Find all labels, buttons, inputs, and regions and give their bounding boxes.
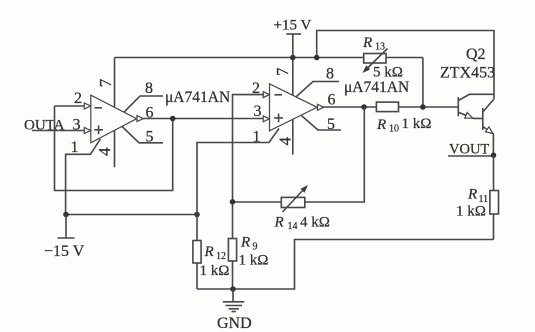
wire U1 pin8 stub bbox=[124, 96, 163, 112]
transistor Q2 emitter 1 arrow bbox=[465, 113, 473, 119]
node dot rail riser bbox=[314, 55, 320, 61]
svg-text:GND: GND bbox=[217, 315, 252, 332]
svg-text:14: 14 bbox=[288, 221, 298, 232]
svg-text:VOUT: VOUT bbox=[449, 142, 489, 158]
svg-text:Q2: Q2 bbox=[466, 46, 486, 63]
svg-text:1 kΩ: 1 kΩ bbox=[456, 204, 486, 220]
resistor R9 box bbox=[228, 239, 236, 262]
wire U2 pin1 branch bbox=[197, 129, 279, 241]
svg-text:ZTX453: ZTX453 bbox=[440, 65, 495, 82]
wire ground bus bbox=[197, 240, 494, 290]
transistor Q2 emitter 2 arrow bbox=[485, 127, 492, 134]
wire U1 pin5 stub bbox=[122, 126, 163, 142]
wire R12 bottom lead bbox=[196, 263, 198, 289]
node dot VOUT bbox=[491, 152, 497, 158]
svg-text:R: R bbox=[376, 117, 386, 133]
op-amp U2 minus bbox=[275, 94, 283, 96]
svg-text:4: 4 bbox=[95, 147, 114, 156]
power -15V bar bbox=[58, 237, 75, 239]
transistor Q2 emitter 2 bbox=[483, 127, 494, 156]
svg-text:R: R bbox=[274, 215, 284, 231]
wire op-amp U1 pin7/pin4 vertical bbox=[114, 58, 116, 168]
svg-text:3: 3 bbox=[254, 103, 262, 120]
wire R14 branch bbox=[233, 107, 365, 202]
power +15V bar bbox=[286, 33, 301, 35]
op-amp U1 output arrow pin6 bbox=[137, 116, 143, 122]
op-amp U1 input arrow pin3 bbox=[84, 128, 90, 134]
op-amp U1 plus bbox=[94, 125, 103, 134]
wire +15V rail bbox=[115, 57, 423, 59]
svg-text:R: R bbox=[204, 244, 214, 260]
wire OUTA to U1 pin3 bbox=[32, 130, 85, 132]
wire U1 output to U2 pin3 bbox=[143, 118, 264, 120]
resistor R12 box bbox=[193, 241, 201, 264]
resistor R13 arrow bbox=[366, 49, 388, 70]
op-amp U1 input arrow pin2 bbox=[84, 103, 90, 109]
node dot R14/R9/pin2 bbox=[230, 199, 236, 205]
svg-text:5: 5 bbox=[327, 116, 335, 133]
resistor R14 box bbox=[281, 197, 305, 207]
node dot U2 output bbox=[361, 104, 367, 110]
wire U2 output to base bbox=[322, 106, 458, 108]
svg-text:+15 V: +15 V bbox=[274, 18, 312, 34]
op-amp U2 output arrow pin6 bbox=[318, 104, 324, 110]
svg-text:10: 10 bbox=[389, 124, 399, 135]
svg-text:R: R bbox=[240, 235, 250, 251]
svg-text:R: R bbox=[362, 35, 372, 51]
svg-text:1 kΩ: 1 kΩ bbox=[402, 116, 432, 132]
svg-text:1: 1 bbox=[71, 139, 79, 156]
op-amp U1 triangle bbox=[91, 95, 137, 143]
resistor R11 box bbox=[490, 191, 499, 215]
node dot -15V left bbox=[63, 212, 69, 218]
op-amp U2 plus bbox=[274, 114, 283, 123]
node dot -15V right bbox=[194, 212, 200, 218]
transistor Q2 emitter 1 bbox=[458, 112, 483, 118]
svg-text:R: R bbox=[467, 187, 477, 203]
wire top collector feed bbox=[317, 31, 494, 100]
node dot ground bbox=[230, 286, 236, 292]
wire U1 feedback loop bbox=[55, 106, 173, 191]
op-amp U1 minus bbox=[95, 107, 103, 109]
wire R9 bottom lead bbox=[232, 261, 234, 289]
wire R13 to base node bbox=[422, 58, 424, 108]
transistor Q2 collector 2 bbox=[483, 99, 494, 112]
op-amp U2 input arrow pin3 bbox=[263, 116, 269, 122]
svg-text:13: 13 bbox=[375, 42, 385, 53]
wire -15V rail bbox=[66, 214, 197, 216]
transistor Q2 base bar 1 bbox=[457, 97, 459, 116]
svg-text:12: 12 bbox=[216, 251, 226, 262]
transistor Q2 collector 1 bbox=[458, 94, 494, 100]
svg-text:5: 5 bbox=[146, 129, 154, 146]
resistor R13 box bbox=[364, 54, 386, 64]
svg-text:7: 7 bbox=[273, 67, 292, 76]
svg-text:μA741AN: μA741AN bbox=[165, 89, 230, 106]
wire U2 pin5 stub bbox=[301, 115, 341, 130]
node dot +15V stem bbox=[290, 55, 296, 61]
svg-text:4: 4 bbox=[276, 136, 295, 145]
svg-text:8: 8 bbox=[326, 66, 334, 83]
node dot base node bbox=[420, 104, 426, 110]
op-amp U2 triangle bbox=[270, 84, 318, 131]
svg-text:6: 6 bbox=[328, 92, 336, 109]
wire VOUT underline bbox=[448, 155, 491, 157]
svg-text:4 kΩ: 4 kΩ bbox=[300, 215, 330, 231]
svg-text:9: 9 bbox=[253, 242, 258, 253]
wire VOUT to R11 bbox=[493, 155, 495, 239]
transistor Q2 base bar 2 bbox=[482, 108, 484, 130]
svg-text:7: 7 bbox=[96, 78, 115, 87]
wire +15V stem and op-amp U2 pin7/pin4 vertical bbox=[292, 34, 294, 155]
wire U1 pin1 to -15V bbox=[66, 139, 101, 215]
op-amp U2 input arrow pin2 bbox=[263, 92, 269, 98]
svg-text:μA741AN: μA741AN bbox=[344, 79, 409, 96]
wire U2 pin8 stub bbox=[296, 82, 339, 97]
svg-text:1 kΩ: 1 kΩ bbox=[200, 263, 230, 279]
node dot U1 output bbox=[170, 116, 176, 122]
power -15V stem bbox=[65, 215, 67, 239]
svg-text:2: 2 bbox=[74, 90, 82, 107]
svg-text:8: 8 bbox=[145, 80, 153, 97]
ground symbol bbox=[223, 289, 245, 312]
resistor R10 box bbox=[376, 102, 398, 112]
wire U1 pin2 bbox=[55, 105, 85, 107]
svg-text:−15 V: −15 V bbox=[44, 243, 85, 260]
resistor R14 arrow bbox=[283, 190, 304, 213]
wire U2 pin2 branch bbox=[233, 95, 265, 239]
svg-text:1 kΩ: 1 kΩ bbox=[239, 253, 269, 269]
